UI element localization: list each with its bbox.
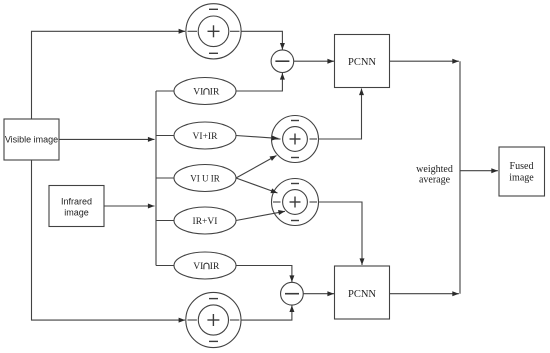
wire: visible image to bus [59, 138, 155, 140]
adder M1 (middle double circle upper) [272, 116, 319, 163]
box: Fused image [499, 147, 545, 196]
wire: adder M1 output to PCNN 1 bottom [319, 89, 362, 140]
wire: bottom adder output to subtractor S2 [241, 305, 292, 320]
ellipse E3 VI∪IR [174, 165, 236, 192]
svg-text:Visible image: Visible image [5, 135, 58, 145]
svg-text:VI+IR: VI+IR [193, 132, 219, 142]
ellipse E2 VI+IR [174, 122, 236, 149]
wire: ellipse IR+VI to adder M2 [236, 211, 285, 220]
ellipse E5 VI∩IR [174, 252, 236, 279]
wire: weighted average vertical line [459, 61, 461, 294]
wire: subtractor S2 to PCNN 2 [303, 293, 334, 295]
ellipse E4 IR+VI [174, 207, 236, 234]
wire: infrared image to bus [104, 205, 155, 207]
svg-text:PCNN: PCNN [348, 289, 376, 300]
wire: subtractor S1 to PCNN 1 [294, 60, 334, 62]
ellipse E1 VI∩IR [174, 78, 236, 105]
wire: PCNN 1 output to weighted average line [390, 60, 459, 62]
wire: bus stub to ellipse VI∩IR top [156, 90, 175, 92]
wire: bus stub to ellipse VI∩IR bottom [156, 265, 175, 267]
svg-text:VI: VI [193, 262, 203, 272]
svg-text:Infrared: Infrared [61, 197, 92, 207]
subtractor S2 (small circle with minus) [281, 282, 304, 305]
wire: bus stub to ellipse VI+IR [156, 135, 175, 137]
wire: vertical bus [155, 91, 157, 266]
svg-text:VI U IR: VI U IR [190, 174, 220, 184]
svg-text:image: image [64, 208, 89, 218]
wire: adder M2 output to PCNN 2 top [319, 202, 363, 265]
wire: weighted average to fused image box [460, 170, 498, 172]
svg-text:IR: IR [210, 262, 220, 272]
svg-text:average: average [419, 175, 451, 186]
svg-text:IR: IR [210, 88, 220, 98]
wire: PCNN 2 output to weighted average line [390, 293, 459, 295]
svg-text:image: image [509, 173, 534, 184]
box: PCNN 2 [335, 266, 390, 319]
adder M2 (middle double circle lower) [272, 179, 319, 226]
wire: bus stub to ellipse VI∪IR [156, 177, 175, 179]
wire: bus stub to ellipse IR+VI [156, 220, 175, 222]
adder A2 (bottom double circle) [186, 292, 241, 347]
svg-text:PCNN: PCNN [348, 57, 376, 68]
wire: visible image top branch to top adder [32, 31, 186, 119]
box: Infrared image [49, 186, 104, 227]
wire: top adder output to subtractor S1 [241, 31, 282, 49]
box: Visible image [4, 119, 59, 160]
wire: ellipse VI∩IR top output to subtractor S1 [236, 73, 282, 91]
wire: ellipse VI∪IR to adder M2 [236, 178, 278, 193]
svg-text:IR+VI: IR+VI [193, 217, 218, 227]
svg-text:weighted: weighted [416, 164, 453, 175]
wire: ellipse VI+IR to adder M1 [236, 136, 279, 139]
svg-text:VI: VI [193, 88, 203, 98]
box: PCNN 1 [335, 35, 390, 88]
wire: ellipse VI∩IR bottom output to subtractor S2 [237, 266, 292, 283]
adder A1 (top double circle) [186, 4, 241, 59]
subtractor S1 (small circle with minus) [271, 50, 294, 73]
wire: visible image bottom branch to bottom adder [32, 160, 186, 320]
svg-text:Fused: Fused [510, 161, 534, 172]
wire: ellipse VI∪IR to adder M1 [236, 156, 277, 179]
